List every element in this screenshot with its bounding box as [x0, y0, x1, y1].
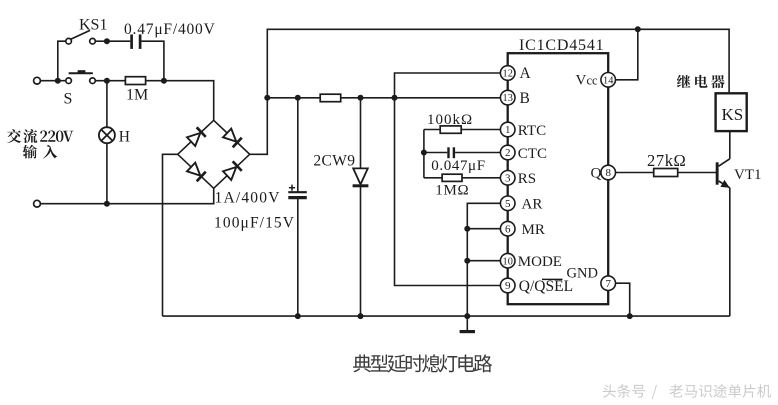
node pin7 rail — [627, 313, 633, 319]
pin 14 — [601, 73, 616, 88]
label shuru — [23, 145, 37, 159]
svg-text:AR: AR — [522, 197, 543, 213]
resistor R4 1M — [424, 177, 442, 179]
wire L to S — [40, 80, 65, 82]
zener diode 2CW9 — [360, 98, 362, 169]
node C2 bottom — [295, 313, 301, 319]
wire bridge right up — [250, 98, 268, 155]
svg-text:1: 1 — [505, 124, 511, 136]
svg-text:6: 6 — [505, 223, 511, 235]
svg-text:0.47μF/400V: 0.47μF/400V — [124, 21, 216, 38]
svg-text:B: B — [520, 90, 530, 107]
wire pin8 to R5 — [616, 172, 654, 174]
svg-text:3: 3 — [505, 172, 511, 184]
svg-text:VT1: VT1 — [734, 167, 762, 183]
node C2 top — [295, 95, 301, 101]
capacitor C3 0.047uF — [424, 152, 447, 154]
caption — [353, 354, 371, 372]
wire MODE stub — [467, 260, 500, 262]
node zener top — [358, 95, 364, 101]
relay KS box — [716, 93, 747, 131]
pin 2 — [500, 145, 515, 160]
pin 12 — [500, 66, 515, 81]
pin 8 — [601, 165, 616, 180]
svg-text:GND: GND — [567, 265, 598, 281]
label AC 220V — [7, 129, 21, 143]
wire MR stub — [467, 228, 500, 230]
svg-text:1A/400V: 1A/400V — [215, 189, 281, 206]
node R-C junction — [161, 78, 167, 84]
node top rail to Vcc — [635, 26, 641, 32]
pin 5 — [500, 196, 515, 211]
node S-R junction — [104, 78, 110, 84]
resistor R1 1M — [125, 77, 145, 85]
wire R5 to base — [678, 172, 717, 174]
op-amp U1 IC box — [508, 53, 609, 304]
resistor R2 — [320, 94, 341, 102]
svg-text:RS: RS — [518, 171, 536, 187]
wire bottom rail — [163, 315, 730, 317]
svg-text:1M: 1M — [126, 86, 148, 103]
watermark — [603, 384, 616, 397]
ground — [466, 316, 468, 331]
pin 7 — [601, 276, 616, 291]
transistor VT1 — [716, 162, 719, 184]
svg-text:1MΩ: 1MΩ — [435, 183, 469, 199]
pin 1 — [500, 122, 515, 137]
node top branch — [104, 38, 110, 44]
wire B rail left — [267, 97, 320, 99]
wire KS1 to node — [95, 40, 107, 42]
svg-text:0.047μF: 0.047μF — [431, 158, 485, 174]
wire pin7 down — [616, 283, 630, 316]
svg-text:CTC: CTC — [518, 146, 547, 162]
wire 1M to bridge — [146, 80, 164, 82]
svg-text:S: S — [64, 91, 73, 108]
node MODE junction — [464, 258, 470, 264]
pin 13 — [500, 90, 515, 105]
svg-text:MR: MR — [522, 222, 545, 238]
svg-text:RTC: RTC — [518, 123, 546, 139]
resistor R5 27k — [654, 169, 678, 177]
bridge frame — [178, 120, 250, 188]
node A-B junction — [392, 95, 398, 101]
wire lamp lower — [106, 143, 108, 204]
node gnd junction — [464, 313, 470, 319]
wire to bridge top — [164, 81, 214, 121]
svg-text:Q: Q — [591, 165, 602, 181]
node L junction — [55, 78, 61, 84]
node RC mid — [421, 150, 427, 156]
svg-text:12: 12 — [503, 69, 513, 80]
svg-text:10: 10 — [503, 256, 513, 267]
diode D4 — [223, 161, 242, 180]
terminal input L — [34, 77, 41, 84]
pin 10 — [500, 253, 515, 268]
svg-text:KS1: KS1 — [79, 17, 107, 34]
svg-text:27kΩ: 27kΩ — [647, 151, 686, 170]
svg-text:9: 9 — [505, 280, 511, 292]
wire pin14 to rail — [616, 29, 638, 80]
wire N to bridge bottom — [40, 188, 213, 203]
svg-text:Q/QSEL: Q/QSEL — [519, 278, 573, 295]
terminal input N — [34, 200, 41, 207]
node Vplus corner — [264, 95, 270, 101]
wire top rail — [267, 29, 729, 98]
wire bridge left down — [163, 154, 178, 316]
svg-text:2CW9: 2CW9 — [313, 152, 355, 169]
node lamp bottom — [104, 201, 110, 207]
diode D2 — [223, 128, 242, 147]
wire RC left vertical — [423, 130, 425, 178]
label relay — [677, 75, 691, 88]
wire KS1 branch up — [58, 41, 66, 80]
capacitor C2 100uF — [297, 98, 299, 192]
svg-text:8: 8 — [605, 167, 611, 179]
capacitor C1 0.47uF leads — [107, 40, 130, 42]
svg-text:7: 7 — [605, 278, 611, 290]
svg-text:13: 13 — [503, 93, 513, 104]
pin 3 — [500, 171, 515, 186]
wire S to 1M — [95, 80, 125, 82]
svg-text:5: 5 — [505, 198, 511, 210]
resistor R3 100k — [424, 129, 440, 131]
lamp H — [99, 127, 115, 143]
pin 9 — [500, 278, 515, 293]
pin 6 — [500, 221, 515, 236]
svg-text:2: 2 — [505, 147, 511, 159]
wire A-Q/QSEL — [395, 73, 501, 286]
switch KS1 — [66, 38, 72, 44]
svg-text:H: H — [119, 128, 130, 145]
diode D1 — [187, 127, 206, 146]
svg-text:14: 14 — [603, 75, 613, 86]
svg-text:V: V — [576, 73, 587, 89]
wire lamp upper — [106, 81, 108, 128]
wire B rail right — [341, 97, 501, 99]
svg-text:A: A — [520, 65, 532, 82]
svg-text:MODE: MODE — [518, 254, 562, 270]
wire collector to relay — [729, 131, 731, 159]
svg-text:cc: cc — [587, 74, 599, 88]
switch S pushbutton — [66, 78, 72, 84]
svg-text:IC1CD4541: IC1CD4541 — [519, 37, 604, 54]
svg-text:KS: KS — [722, 105, 744, 124]
wire emitter down — [729, 188, 731, 316]
wire AR junction — [467, 203, 500, 316]
node zener bottom — [358, 313, 364, 319]
svg-text:100μF/15V: 100μF/15V — [214, 214, 295, 231]
node MR junction — [464, 226, 470, 232]
diode D3 — [187, 162, 206, 181]
svg-text:100kΩ: 100kΩ — [427, 112, 473, 128]
